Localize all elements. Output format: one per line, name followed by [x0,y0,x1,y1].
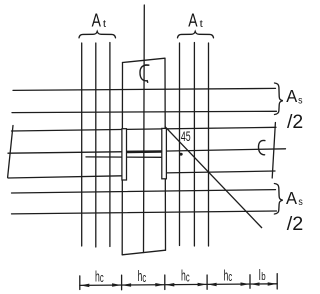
label As bottom [286,188,303,208]
svg-text:t: t [103,18,106,30]
stirrup bar R3 [208,43,210,246]
svg-text:A: A [188,9,198,30]
svg-text:A: A [92,9,102,30]
svg-text:A: A [286,188,297,208]
beam top edge [12,127,277,131]
section mark C top [140,65,149,82]
dim tick 4 [206,275,208,289]
brace over left stirrups [79,32,116,38]
svg-text:/2: /2 [287,213,304,235]
column right edge [164,59,167,251]
beam web bottom line [86,156,162,158]
stirrup bar L1 [81,43,83,246]
svg-text:45: 45 [181,129,191,144]
bottom rebar As line 2 [12,211,277,214]
diagonal 45 degree line [165,126,262,228]
stirrup bar R1 [179,43,181,246]
svg-text:c: c [142,271,146,285]
label hc 3 [181,268,190,285]
svg-text:t: t [200,18,203,30]
brace right bottom [274,184,282,215]
steel web [127,150,162,153]
svg-text:c: c [100,271,104,285]
steel flange right [162,128,167,178]
section mark C right [258,140,264,154]
dimension line [80,274,277,290]
label hc 2 [138,268,147,285]
label hc 1 [95,268,104,285]
top rebar As line 1 [13,88,276,90]
svg-text:b: b [261,271,265,283]
stirrup bar R2 [193,43,195,247]
dim arrows [80,282,276,287]
dim tick 6 [276,274,278,289]
column left edge [121,63,123,255]
column bottom cut line [122,250,165,255]
dim tick 1 [79,276,81,290]
beam right cut line [272,123,275,179]
dim tick 2 [121,275,123,290]
stirrup bar L2 [95,43,97,247]
bottom rebar As line 1 [12,190,276,193]
label hc 4 [224,267,233,284]
label At left [92,9,107,30]
svg-text:c: c [186,271,190,285]
dim tick 5 [249,275,251,288]
brace over right stirrups [178,32,214,38]
column top cut line [123,58,166,62]
label lb [259,267,266,284]
steel flange left [122,129,127,180]
top rebar As line 2 [12,111,277,112]
label At right [188,9,203,30]
column center line [143,5,146,253]
svg-text:s: s [298,197,302,208]
brace right top [275,83,283,115]
svg-text:c: c [228,270,232,284]
dim tick 3 [164,275,166,290]
svg-text:A: A [286,86,297,106]
stirrup bar L3 [109,43,111,247]
beam left break line [8,126,13,178]
svg-text:s: s [298,95,302,106]
beam center line [8,149,286,153]
beam bottom edge right segment [166,171,275,173]
svg-text:/2: /2 [287,111,303,133]
angle arc [179,153,182,156]
label As top [286,86,302,106]
beam bottom edge left segment [8,176,122,178]
